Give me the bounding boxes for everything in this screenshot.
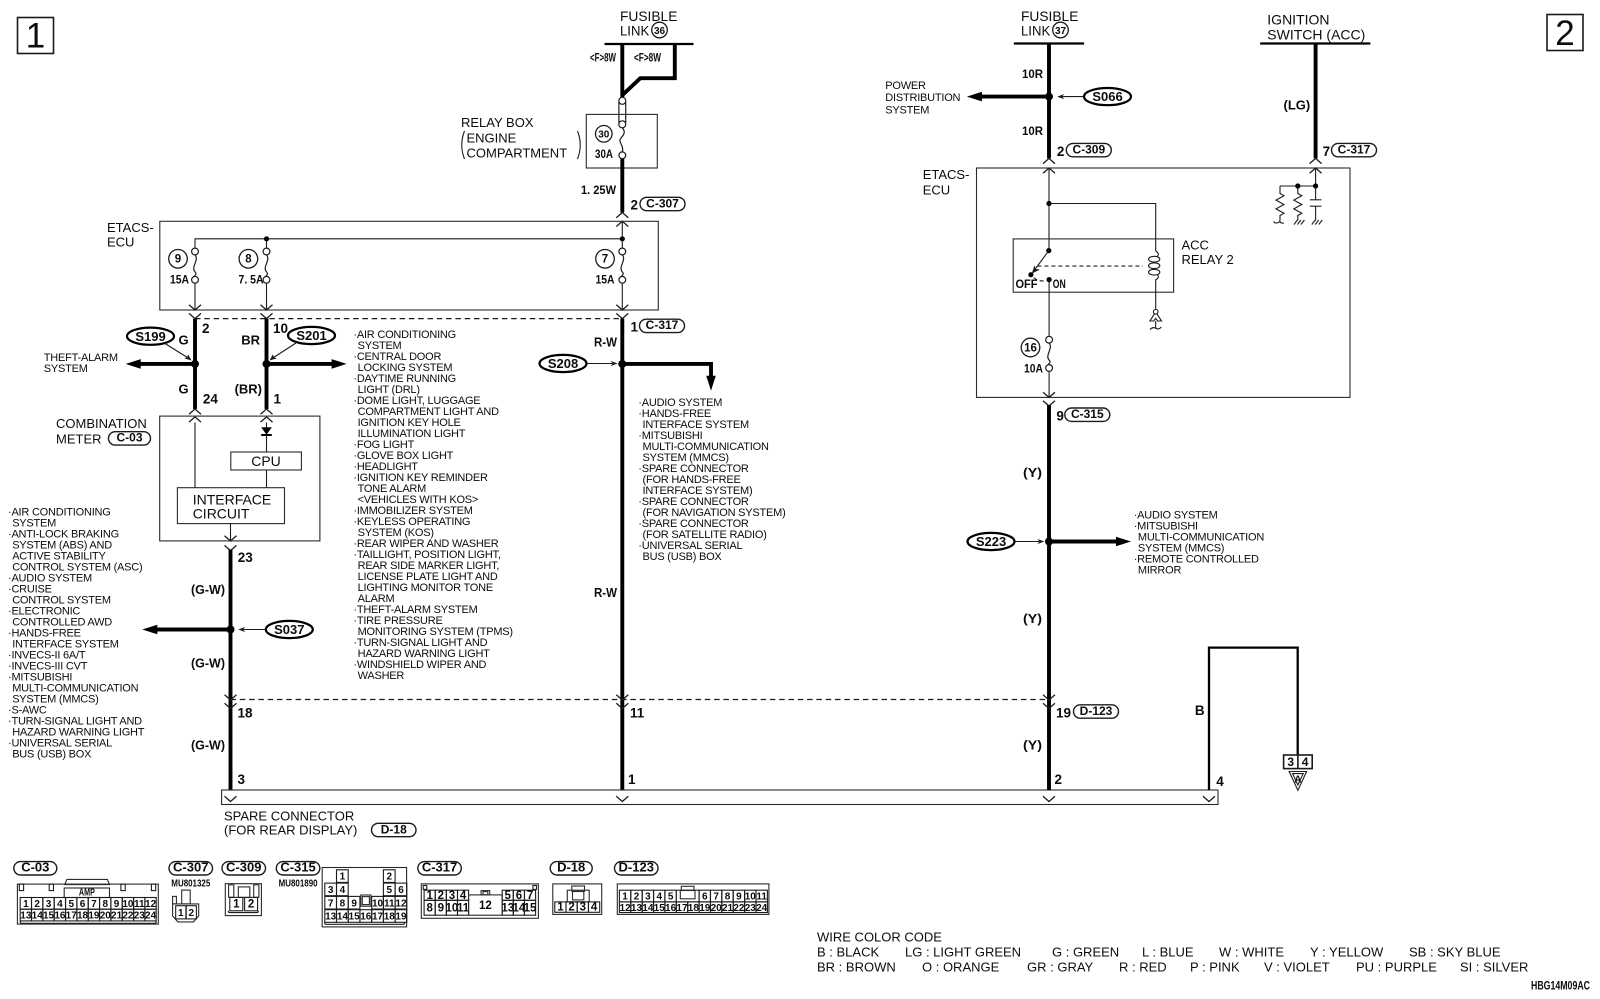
label 1. 25W bbox=[581, 183, 617, 197]
svg-text:2: 2 bbox=[248, 899, 254, 911]
wire fuse 8 to pin 10 bbox=[261, 283, 273, 318]
connector D-18 label bbox=[550, 860, 592, 875]
svg-text:11: 11 bbox=[457, 902, 470, 914]
fuse 7 element bbox=[619, 248, 626, 283]
svg-text:BR: BR bbox=[241, 333, 260, 348]
svg-text:7: 7 bbox=[602, 254, 608, 266]
combination meter box bbox=[160, 416, 320, 541]
internal wire to relay coil bbox=[1049, 204, 1156, 252]
connector D-123 label bbox=[615, 860, 659, 875]
svg-text:L : BLUE: L : BLUE bbox=[1142, 945, 1194, 960]
wire relay ON contact to fuse 16 bbox=[1048, 280, 1050, 337]
internal wire 10R to relay switch bbox=[1048, 168, 1050, 250]
relay box internal ground bbox=[1150, 310, 1162, 330]
svg-text:DISTRIBUTION: DISTRIBUTION bbox=[885, 92, 960, 104]
svg-text:2: 2 bbox=[189, 908, 195, 919]
fuse 8 circled number bbox=[239, 249, 258, 268]
fusible link element symbol bbox=[619, 97, 626, 128]
svg-text:SB : SKY BLUE: SB : SKY BLUE bbox=[1409, 945, 1501, 960]
svg-text:P : PINK: P : PINK bbox=[1190, 960, 1240, 975]
connector D-18 pinout bbox=[553, 884, 602, 915]
wire B from spare connector pin 4 bbox=[1209, 648, 1298, 790]
svg-text:S201: S201 bbox=[296, 328, 326, 343]
wire color code legend bbox=[817, 930, 1528, 975]
wire BR to combination meter pin 1 bbox=[261, 409, 273, 422]
svg-text:C-315: C-315 bbox=[1071, 407, 1104, 421]
svg-text:17: 17 bbox=[372, 912, 384, 923]
svg-text:<F>8W: <F>8W bbox=[590, 51, 616, 65]
svg-text:C-317: C-317 bbox=[646, 318, 679, 332]
label OFF bbox=[1016, 277, 1038, 291]
page number 1 box bbox=[18, 17, 54, 56]
pin 19 and connector D-123 label bbox=[1056, 704, 1119, 721]
svg-text:10A: 10A bbox=[1024, 362, 1043, 376]
svg-text:C-309: C-309 bbox=[226, 860, 261, 875]
branch arrow to S037 system list bbox=[142, 625, 230, 635]
svg-text:ETACS-: ETACS- bbox=[107, 220, 154, 235]
pin 23 label bbox=[238, 550, 254, 565]
wire G inside combination meter bbox=[194, 423, 196, 488]
svg-text:COMPARTMENT: COMPARTMENT bbox=[467, 146, 568, 161]
power distribution system label bbox=[885, 80, 960, 116]
svg-text:2: 2 bbox=[202, 321, 210, 336]
branch arrow to S201 system list bbox=[267, 359, 347, 369]
fuse 16 element bbox=[1046, 336, 1053, 371]
label: systems fed by splice S208 bbox=[638, 397, 785, 563]
page number 2 box bbox=[1547, 14, 1583, 53]
combination meter label bbox=[56, 416, 151, 447]
connector C-315 part number MU801890 bbox=[279, 879, 318, 890]
svg-text:C-307: C-307 bbox=[646, 196, 679, 210]
svg-text:18: 18 bbox=[238, 706, 254, 721]
svg-text:4: 4 bbox=[340, 885, 346, 896]
svg-text:G : GREEN: G : GREEN bbox=[1052, 945, 1119, 960]
svg-text:D-123: D-123 bbox=[1080, 704, 1113, 718]
svg-text:9: 9 bbox=[114, 899, 120, 910]
connector C-03 label bbox=[14, 860, 57, 875]
svg-text:1: 1 bbox=[178, 908, 184, 919]
connector C-317 pinout bbox=[421, 884, 538, 918]
splice S037 label bbox=[238, 621, 312, 638]
svg-text:HBG14M09AC: HBG14M09AC bbox=[1531, 979, 1590, 993]
label <F>8W left bbox=[590, 51, 616, 65]
svg-text:S066: S066 bbox=[1092, 89, 1122, 104]
svg-text:C-307: C-307 bbox=[173, 860, 208, 875]
off-page arrow A bbox=[1289, 772, 1306, 791]
svg-text:12: 12 bbox=[395, 898, 407, 909]
fuse 30 element bbox=[619, 128, 626, 159]
pin 11 label bbox=[630, 706, 645, 721]
wire 10R chevrons into ETACS-ECU bbox=[1043, 158, 1055, 173]
svg-text:IGNITION: IGNITION bbox=[1267, 12, 1329, 28]
svg-text:(LG): (LG) bbox=[1284, 98, 1311, 113]
svg-text:17: 17 bbox=[66, 911, 78, 922]
splice S208 label bbox=[540, 355, 618, 372]
svg-text:1: 1 bbox=[631, 320, 639, 335]
wire fuse 7 to pin 1 bbox=[616, 283, 628, 318]
svg-text:12: 12 bbox=[145, 899, 157, 910]
ETACS-ECU (right) box bbox=[977, 168, 1351, 397]
svg-text:22: 22 bbox=[122, 911, 134, 922]
svg-text:18: 18 bbox=[77, 911, 89, 922]
bus entry arrow pin 4 bbox=[1203, 796, 1215, 801]
junction dot S066 bbox=[1045, 93, 1053, 101]
wire BR pin 10 segment bbox=[265, 319, 269, 409]
fuse 30 rating 30A bbox=[595, 147, 613, 161]
wire LG from ignition switch bbox=[1314, 44, 1318, 159]
svg-text:POWER: POWER bbox=[885, 80, 926, 92]
splice S201 label bbox=[270, 327, 336, 361]
svg-text:1: 1 bbox=[274, 392, 282, 407]
internal feed wire across ETACS-ECU bbox=[195, 221, 622, 248]
wire CPU to interface circuit bbox=[266, 470, 268, 488]
junction dot at fuse 7 tap bbox=[620, 236, 625, 241]
wire from fusible link 36 (left <F>8W) bbox=[620, 44, 624, 98]
junction dot at fuse 8 tap bbox=[264, 236, 269, 241]
pin 1 label (spare connector) bbox=[628, 772, 636, 787]
svg-text:BUS (USB) BOX: BUS (USB) BOX bbox=[12, 749, 92, 761]
svg-text:2: 2 bbox=[1055, 772, 1063, 787]
svg-text:1: 1 bbox=[23, 899, 29, 910]
svg-text:2: 2 bbox=[1057, 144, 1065, 159]
svg-text:PU : PURPLE: PU : PURPLE bbox=[1356, 960, 1437, 975]
svg-text:8: 8 bbox=[725, 892, 731, 903]
wire 10R from fusible link 37 bbox=[1047, 44, 1051, 159]
svg-text:B: B bbox=[1195, 703, 1205, 718]
svg-text:D-123: D-123 bbox=[619, 860, 654, 875]
svg-text:ENGINE: ENGINE bbox=[467, 131, 517, 146]
svg-text:1: 1 bbox=[628, 772, 636, 787]
label ON bbox=[1053, 277, 1066, 291]
label: systems fed by splice S037 bbox=[8, 507, 145, 761]
branch wire from S208 down to system list bbox=[622, 364, 716, 391]
svg-text:C-03: C-03 bbox=[21, 860, 49, 875]
svg-text:13: 13 bbox=[325, 912, 337, 923]
svg-text:2: 2 bbox=[634, 892, 640, 903]
svg-text:23: 23 bbox=[238, 550, 254, 565]
svg-text:THEFT-ALARM: THEFT-ALARM bbox=[44, 352, 118, 364]
svg-text:C-03: C-03 bbox=[116, 431, 142, 445]
svg-text:5: 5 bbox=[386, 885, 392, 896]
label: systems fed by splice S201 bbox=[353, 329, 512, 682]
svg-text:G: G bbox=[178, 381, 188, 396]
harness boundary dashed line (upper) bbox=[195, 318, 622, 320]
connector C-317 label bbox=[418, 860, 462, 875]
internal wire LG to RC network bbox=[1315, 168, 1317, 186]
svg-text:2: 2 bbox=[1555, 14, 1574, 53]
svg-text:ON: ON bbox=[1053, 277, 1066, 291]
svg-text:1. 25W: 1. 25W bbox=[581, 183, 617, 197]
svg-text:15: 15 bbox=[524, 902, 537, 914]
wire Y harness boundary chevrons bbox=[1043, 695, 1055, 709]
svg-text:GR : GRAY: GR : GRAY bbox=[1027, 960, 1094, 975]
svg-text:WASHER: WASHER bbox=[358, 670, 405, 682]
connector D-123 pinout bbox=[617, 884, 769, 915]
svg-text:17: 17 bbox=[676, 903, 688, 914]
svg-text:3: 3 bbox=[238, 772, 246, 787]
wire fuse 16 to pin 9 bbox=[1043, 371, 1055, 406]
fuse 8 rating 7.5A bbox=[239, 273, 264, 287]
bus entry arrow pin 1 bbox=[616, 796, 628, 801]
svg-text:12: 12 bbox=[479, 900, 492, 912]
svg-text:16: 16 bbox=[360, 912, 372, 923]
connector C-315 pinout bbox=[322, 868, 407, 927]
wire G to combination meter pin 24 bbox=[189, 409, 201, 422]
svg-text:2: 2 bbox=[34, 899, 40, 910]
svg-text:SI : SILVER: SI : SILVER bbox=[1460, 960, 1528, 975]
ignition switch (ACC) label bbox=[1267, 12, 1365, 43]
RC network top wire bbox=[1280, 185, 1316, 187]
pin 18 label bbox=[238, 706, 254, 721]
svg-text:24: 24 bbox=[203, 392, 219, 407]
wire label 10R (lower) bbox=[1022, 124, 1043, 138]
wire color label (G-W) lower bbox=[191, 738, 225, 753]
fusible link 36 label bbox=[620, 8, 677, 39]
svg-text:MU801325: MU801325 bbox=[171, 879, 210, 890]
svg-text:C-309: C-309 bbox=[1072, 142, 1105, 156]
svg-text:15: 15 bbox=[43, 911, 55, 922]
svg-text:4: 4 bbox=[656, 892, 662, 903]
svg-text:7: 7 bbox=[1323, 144, 1331, 159]
relay switch common contact bbox=[1046, 248, 1051, 253]
inline connector pins 3|4 bbox=[1284, 755, 1313, 769]
wire Y segment bbox=[1047, 405, 1051, 790]
relay switch arm (OFF position) bbox=[1028, 251, 1049, 278]
svg-text:3: 3 bbox=[580, 902, 586, 914]
svg-text:S223: S223 bbox=[976, 534, 1006, 549]
ETACS-ECU (left) box bbox=[160, 221, 659, 310]
spare connector label bbox=[224, 809, 416, 838]
fusible link 37 label bbox=[1021, 8, 1078, 39]
svg-text:12: 12 bbox=[620, 903, 632, 914]
relay switch ON contact bbox=[1034, 277, 1052, 282]
svg-text:WIRE COLOR CODE: WIRE COLOR CODE bbox=[817, 930, 942, 945]
wire color label (Y) lower bbox=[1023, 738, 1042, 753]
svg-text:23: 23 bbox=[134, 911, 146, 922]
svg-text:9: 9 bbox=[1056, 409, 1064, 424]
svg-text:G: G bbox=[178, 333, 188, 348]
svg-text:9: 9 bbox=[438, 902, 444, 914]
svg-text:15: 15 bbox=[349, 912, 361, 923]
wire color label G (upper) bbox=[178, 333, 188, 348]
wire R-W harness boundary chevrons bbox=[616, 695, 628, 709]
wire G-W harness boundary chevrons bbox=[225, 695, 237, 709]
svg-text:MIRROR: MIRROR bbox=[1138, 565, 1182, 577]
svg-text:SYSTEM: SYSTEM bbox=[44, 363, 88, 375]
ground hatch below R2 bbox=[1294, 220, 1304, 225]
svg-text:RELAY 2: RELAY 2 bbox=[1182, 252, 1234, 267]
svg-text:MU801890: MU801890 bbox=[279, 879, 318, 890]
svg-text:37: 37 bbox=[1055, 26, 1067, 37]
svg-text:A: A bbox=[1294, 775, 1301, 786]
svg-text:4: 4 bbox=[1302, 755, 1309, 769]
svg-text:ECU: ECU bbox=[923, 183, 950, 198]
svg-text:10: 10 bbox=[372, 898, 384, 909]
svg-text:8: 8 bbox=[102, 899, 108, 910]
relay box (engine compartment) label bbox=[461, 115, 580, 161]
connector C-309 label bbox=[222, 860, 266, 875]
bus entry arrow pin 2 bbox=[1043, 796, 1055, 801]
svg-text:18: 18 bbox=[688, 903, 700, 914]
svg-text:10: 10 bbox=[122, 899, 134, 910]
svg-text:S037: S037 bbox=[274, 622, 304, 637]
ground hatch below C1 bbox=[1312, 220, 1322, 225]
ETACS-ECU (right) label bbox=[923, 167, 970, 198]
svg-text:O : ORANGE: O : ORANGE bbox=[922, 960, 1000, 975]
svg-text:R-W: R-W bbox=[594, 585, 618, 600]
svg-text:36: 36 bbox=[654, 26, 666, 37]
connector C-03 pinout bbox=[17, 879, 158, 924]
svg-text:4: 4 bbox=[57, 899, 63, 910]
svg-text:30: 30 bbox=[598, 130, 610, 141]
svg-text:19: 19 bbox=[1056, 706, 1071, 721]
connector C-315 label bbox=[276, 860, 320, 875]
wire color label (Y) upper bbox=[1023, 465, 1042, 480]
wire 1.25W below relay box bbox=[620, 159, 624, 213]
svg-text:B : BLACK: B : BLACK bbox=[817, 945, 879, 960]
pin 2 label bbox=[202, 321, 210, 336]
junction dot S199 bbox=[191, 360, 199, 368]
svg-text:C-317: C-317 bbox=[422, 860, 457, 875]
junction dot C1 bbox=[1313, 183, 1318, 188]
svg-text:16: 16 bbox=[665, 903, 677, 914]
svg-text:24: 24 bbox=[145, 911, 157, 922]
svg-text:7: 7 bbox=[91, 899, 97, 910]
pin 24 label bbox=[203, 392, 219, 407]
harness boundary dashed line (lower) bbox=[231, 699, 1050, 701]
resistor R2 bbox=[1294, 186, 1302, 221]
svg-text:14: 14 bbox=[642, 903, 654, 914]
pin 4 label (spare connector) bbox=[1216, 774, 1224, 789]
pin 2 and connector C-309 label bbox=[1057, 142, 1111, 159]
ignition switch supply bar bbox=[1260, 42, 1370, 44]
svg-text:W : WHITE: W : WHITE bbox=[1219, 945, 1284, 960]
relay actuation dashed line bbox=[1037, 265, 1143, 267]
svg-text:1: 1 bbox=[26, 17, 45, 56]
svg-text:18: 18 bbox=[384, 912, 396, 923]
fuse 16 rating 10A bbox=[1024, 362, 1043, 376]
ETACS-ECU (left) label bbox=[107, 220, 154, 250]
pin 2 and connector C-307 label bbox=[631, 196, 686, 212]
svg-text:6: 6 bbox=[398, 885, 404, 896]
svg-text:4: 4 bbox=[1216, 774, 1224, 789]
fuse 9 rating 15A bbox=[170, 273, 189, 287]
wire color label BR (upper) bbox=[241, 333, 260, 348]
svg-text:CIRCUIT: CIRCUIT bbox=[193, 505, 250, 521]
wire color label (Y) middle bbox=[1023, 611, 1042, 626]
ACC relay 2 label bbox=[1182, 238, 1234, 268]
junction dot R2 bbox=[1295, 183, 1300, 188]
fuse 7 circled number bbox=[596, 249, 615, 268]
svg-text:COMBINATION: COMBINATION bbox=[56, 416, 147, 431]
svg-text:5: 5 bbox=[68, 899, 74, 910]
connector C-307 label bbox=[169, 860, 213, 875]
svg-text:22: 22 bbox=[733, 903, 745, 914]
svg-text:15: 15 bbox=[654, 903, 666, 914]
svg-text:3: 3 bbox=[328, 885, 334, 896]
diode in combination meter bbox=[261, 423, 272, 453]
junction dot relay coil tap bbox=[1046, 201, 1051, 206]
svg-text:21: 21 bbox=[722, 903, 734, 914]
svg-text:(BR): (BR) bbox=[235, 381, 262, 396]
splice S066 label bbox=[1057, 88, 1131, 105]
svg-text:21: 21 bbox=[111, 911, 123, 922]
svg-text:9: 9 bbox=[351, 898, 357, 909]
svg-text:13: 13 bbox=[20, 911, 32, 922]
svg-text:SPARE CONNECTOR: SPARE CONNECTOR bbox=[224, 809, 354, 824]
svg-text:ECU: ECU bbox=[107, 235, 134, 250]
svg-text:R-W: R-W bbox=[594, 335, 618, 350]
svg-text:RELAY BOX: RELAY BOX bbox=[461, 115, 534, 130]
svg-text:BR : BROWN: BR : BROWN bbox=[817, 960, 896, 975]
spare connector (for rear display) bus bar bbox=[222, 790, 1218, 805]
svg-text:5: 5 bbox=[668, 892, 674, 903]
svg-text:BUS (USB) BOX: BUS (USB) BOX bbox=[643, 551, 723, 563]
wire color label (BR) lower bbox=[235, 381, 262, 396]
svg-text:S208: S208 bbox=[548, 356, 578, 371]
svg-text:(Y): (Y) bbox=[1023, 738, 1042, 753]
relay box outline bbox=[586, 114, 657, 168]
svg-text:8: 8 bbox=[426, 902, 433, 914]
svg-text:9: 9 bbox=[736, 892, 742, 903]
wire LG chevrons into ETACS-ECU bbox=[1310, 158, 1322, 173]
junction dot S208 bbox=[618, 360, 626, 368]
wire R-W pin 1 segment bbox=[620, 319, 624, 790]
svg-text:14: 14 bbox=[337, 912, 349, 923]
junction dot S037 bbox=[227, 626, 235, 634]
svg-text:6: 6 bbox=[702, 892, 708, 903]
fuse 30 circled number bbox=[596, 126, 613, 143]
wire color label R-W (upper) bbox=[594, 335, 618, 350]
svg-text:2: 2 bbox=[631, 198, 639, 213]
svg-text:C-315: C-315 bbox=[280, 860, 315, 875]
svg-text:S199: S199 bbox=[135, 329, 165, 344]
junction dot S201 bbox=[263, 360, 271, 368]
wire G pin 2 segment bbox=[193, 319, 197, 409]
svg-text:(Y): (Y) bbox=[1023, 611, 1042, 626]
svg-text:D-18: D-18 bbox=[557, 860, 585, 875]
wire branch right <F>8W bbox=[623, 44, 675, 95]
svg-text:(G-W): (G-W) bbox=[191, 656, 225, 671]
svg-text:11: 11 bbox=[384, 898, 395, 909]
fuse 7 rating 15A bbox=[596, 273, 615, 287]
svg-text:19: 19 bbox=[88, 911, 100, 922]
label <F>8W right bbox=[634, 51, 661, 65]
svg-text:3: 3 bbox=[46, 899, 52, 910]
svg-text:SYSTEM: SYSTEM bbox=[885, 104, 929, 116]
wire label 10R (upper) bbox=[1022, 67, 1043, 81]
bus entry arrow pin 3 bbox=[225, 796, 237, 801]
fusible link 36 supply bar bbox=[605, 43, 694, 45]
svg-text:3: 3 bbox=[645, 892, 651, 903]
svg-text:V : VIOLET: V : VIOLET bbox=[1264, 960, 1330, 975]
svg-text:C-317: C-317 bbox=[1338, 142, 1371, 156]
svg-text:20: 20 bbox=[100, 911, 112, 922]
svg-text:Y : YELLOW: Y : YELLOW bbox=[1310, 945, 1384, 960]
svg-text:LG : LIGHT GREEN: LG : LIGHT GREEN bbox=[905, 945, 1021, 960]
svg-text:13: 13 bbox=[631, 903, 643, 914]
resistor R1 (pull-down) bbox=[1274, 186, 1284, 223]
fuse 8 element bbox=[263, 248, 270, 283]
fuse 9 circled number bbox=[169, 249, 188, 268]
fuse 16 circled number bbox=[1021, 338, 1040, 357]
pin 9 and connector C-315 label bbox=[1056, 407, 1109, 424]
svg-text:23: 23 bbox=[745, 903, 757, 914]
splice S199 label bbox=[127, 328, 192, 361]
label: systems fed by splice S223 bbox=[1134, 510, 1265, 577]
document number HBG14M09AC bbox=[1531, 979, 1590, 993]
wire color label R-W (lower) bbox=[594, 585, 618, 600]
